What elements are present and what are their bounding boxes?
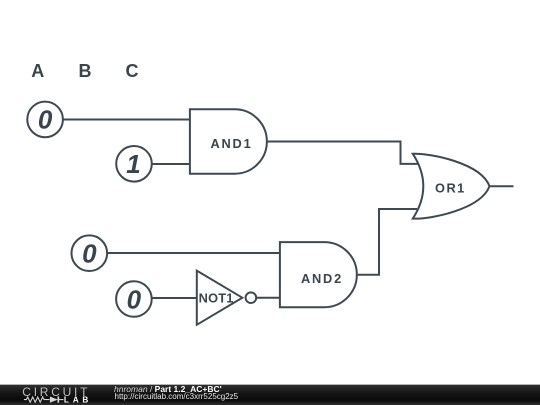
svg-text:C: C (126, 61, 139, 81)
input source 0 (node C) (72, 235, 108, 271)
and gate AND1 (190, 109, 267, 173)
svg-text:OR1: OR1 (435, 180, 466, 195)
svg-text:LAB: LAB (64, 395, 92, 404)
CircuitLab logo (18, 385, 108, 405)
and gate AND2 (280, 242, 357, 307)
input source 0 (node A) (27, 102, 63, 138)
input source 1 (node B) (116, 146, 152, 182)
wire: AND2 output to OR1 bottom input (3 segments) (357, 209, 417, 275)
wire: input 0 to AND2 top input (107, 252, 281, 254)
svg-text:1: 1 (126, 149, 140, 179)
svg-text:AND1: AND1 (210, 136, 252, 151)
not gate NOT1 (197, 271, 256, 325)
wire: input 1 to AND1 bottom input (152, 163, 191, 165)
wire: AND1 output to OR1 top input (3 segments) (267, 142, 419, 164)
wire: NOT1 bubble to AND2 bottom input (256, 297, 281, 299)
svg-text:B: B (79, 61, 92, 81)
svg-text:0: 0 (82, 239, 97, 269)
svg-text:A: A (31, 61, 44, 81)
svg-text:0: 0 (38, 105, 53, 135)
wire: input 0 to NOT1 input (152, 297, 198, 299)
input source 0 (node D) (116, 281, 152, 317)
footer black bar (0, 384, 540, 405)
wire: OR1 output (490, 185, 514, 187)
or gate OR1 (413, 154, 490, 219)
svg-text:AND2: AND2 (301, 271, 343, 286)
credit text (114, 385, 222, 394)
svg-text:0: 0 (127, 284, 142, 314)
svg-text:NOT1: NOT1 (199, 290, 234, 305)
wire: input 0 to AND1 top input (63, 119, 191, 121)
